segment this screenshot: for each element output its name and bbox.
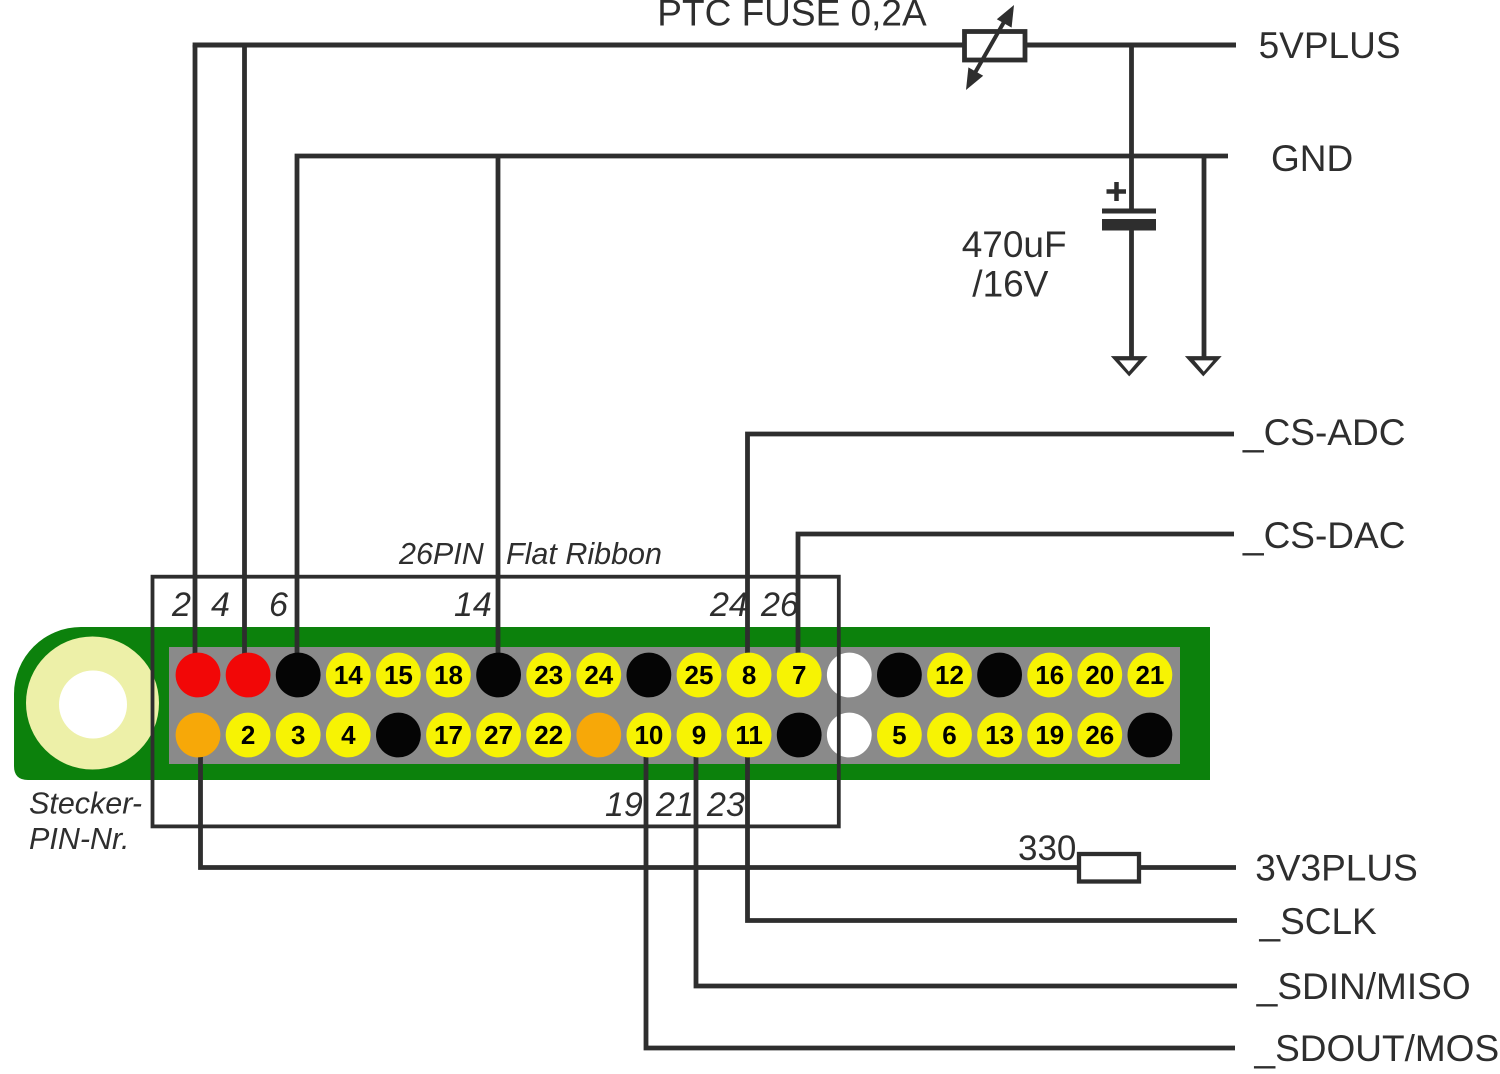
svg-text:20: 20 (1085, 660, 1114, 690)
net label GND (1271, 138, 1353, 179)
svg-text:330: 330 (1018, 829, 1076, 868)
connector pin 6 (black) (276, 653, 321, 698)
svg-text:4: 4 (341, 720, 356, 750)
svg-text:17: 17 (434, 720, 463, 750)
wire pin21 to _SDIN/MISO (696, 735, 1237, 986)
connector pin 11 (yel GPIO17) (426, 713, 471, 758)
net label 5VPLUS (1259, 25, 1401, 66)
svg-text:3V3PLUS: 3V3PLUS (1255, 848, 1418, 889)
mounting hole (59, 671, 127, 739)
connector body (169, 647, 1180, 764)
connector pin 5 (yel GPIO3) (276, 713, 321, 758)
svg-text:24: 24 (709, 586, 748, 624)
connector pin 12 (yel GPIO18) (426, 653, 471, 698)
connector pin 31 (yel GPIO6) (927, 713, 972, 758)
svg-text:11: 11 (735, 720, 763, 750)
pin number 19 (605, 786, 643, 824)
connector pin 33 (yel GPIO13) (977, 713, 1022, 758)
resistor R1 330 (1079, 854, 1139, 882)
svg-text:5: 5 (892, 720, 906, 750)
svg-text:4: 4 (211, 586, 230, 624)
svg-text:24: 24 (584, 660, 613, 690)
svg-text:21: 21 (655, 786, 694, 824)
pin number 21 (655, 786, 694, 824)
label 26PIN (398, 537, 485, 571)
svg-text:Stecker-: Stecker- (29, 787, 142, 821)
wire 5VPLUS to capacitor C1 (1129, 45, 1134, 212)
capacitor C1 (1102, 182, 1156, 231)
svg-text:14: 14 (454, 586, 492, 624)
svg-text:15: 15 (384, 660, 413, 690)
pin number 4 (211, 586, 230, 624)
svg-text:_SCLK: _SCLK (1259, 901, 1378, 942)
PCB board (14, 627, 1210, 780)
svg-text:PIN-Nr.: PIN-Nr. (29, 822, 130, 856)
connector pin 15 (yel GPIO22) (526, 713, 571, 758)
connector pin 27 (white) (827, 713, 872, 758)
pin number 24 (709, 586, 748, 624)
svg-text:2: 2 (171, 586, 191, 624)
svg-text:PTC FUSE 0,2A: PTC FUSE 0,2A (657, 0, 927, 34)
net label _SDIN/MISO (1256, 966, 1471, 1007)
connector pin 21 (yel GPIO9) (677, 713, 722, 758)
wire pin26 to _CS-DAC (798, 534, 1234, 675)
net label 3V3PLUS (1255, 848, 1418, 889)
svg-text:16: 16 (1035, 660, 1064, 690)
connector pin 30 (black) (877, 653, 922, 698)
connector pin 18 (yel GPIO24) (576, 653, 621, 698)
connector pin 35 (yel GPIO19) (1027, 713, 1072, 758)
pin number 14 (454, 586, 492, 624)
svg-text:23: 23 (534, 660, 563, 690)
svg-text:_CS-DAC: _CS-DAC (1242, 515, 1405, 556)
connector pin 10 (yel GPIO15) (376, 653, 421, 698)
net label _SDOUT/MOSI (1254, 1028, 1500, 1069)
svg-text:6: 6 (269, 586, 288, 624)
pin number 23 (706, 786, 745, 824)
resistor value 330 (1018, 829, 1076, 868)
wire pin14 to GND (496, 156, 501, 675)
svg-text:2: 2 (241, 720, 255, 750)
net label _CS-ADC (1242, 412, 1405, 453)
svg-text:26: 26 (1085, 720, 1114, 750)
svg-text:_SDIN/MISO: _SDIN/MISO (1256, 966, 1471, 1007)
connector pin 3 (yel GPIO2) (226, 713, 271, 758)
label Flat Ribbon (506, 537, 662, 571)
svg-text:6: 6 (942, 720, 956, 750)
ground symbol (capacitor) (1111, 356, 1148, 376)
connector pin 22 (yel GPIO25) (677, 653, 722, 698)
svg-text:22: 22 (534, 720, 563, 750)
svg-text:27: 27 (484, 720, 513, 750)
mounting hole pad (26, 637, 159, 770)
connector pin 24 (yel GPIO8) (727, 653, 772, 698)
connector pin 17 (org) (576, 713, 621, 758)
connector pin 23 (yel GPIO11) (727, 713, 772, 758)
ground symbol (GND net) (1185, 356, 1222, 376)
connector pin 25 (black) (777, 713, 822, 758)
wire capacitor C1 to ground (1129, 228, 1134, 358)
connector pin 34 (black) (977, 653, 1022, 698)
connector pin 26 (yel GPIO7) (777, 653, 822, 698)
connector pin 13 (yel GPIO27) (476, 713, 521, 758)
connector pin 40 (yel GPIO21) (1128, 653, 1173, 698)
svg-text:/16V: /16V (972, 264, 1048, 305)
svg-text:7: 7 (792, 660, 806, 690)
svg-text:25: 25 (685, 660, 714, 690)
svg-text:5VPLUS: 5VPLUS (1259, 25, 1401, 66)
svg-text:18: 18 (434, 660, 463, 690)
svg-text:_SDOUT/MOSI: _SDOUT/MOSI (1254, 1028, 1500, 1069)
connector pin 14 (black) (476, 653, 521, 698)
wire pin2 to 5VPLUS (193, 45, 198, 675)
svg-text:19: 19 (605, 786, 643, 824)
wire GND to ground (1202, 156, 1207, 358)
connector pin 28 (white) (827, 653, 872, 698)
wire pin4 to 5VPLUS (242, 45, 247, 675)
pin number 2 (171, 586, 191, 624)
svg-text:470uF: 470uF (962, 224, 1067, 265)
svg-text:10: 10 (634, 720, 663, 750)
connector pin 7 (yel GPIO4) (326, 713, 371, 758)
connector pin 36 (yel GPIO16) (1027, 653, 1072, 698)
connector pin 4 (red) (226, 653, 271, 698)
connector pin 32 (yel GPIO12) (927, 653, 972, 698)
connector pin 9 (black) (376, 713, 421, 758)
svg-text:_CS-ADC: _CS-ADC (1242, 412, 1405, 453)
connector pin 20 (black) (627, 653, 672, 698)
wire pin1 to resistor R1 and 3V3PLUS (201, 735, 1237, 868)
svg-text:23: 23 (706, 786, 745, 824)
wire pin6 to GND horizontal (297, 156, 1228, 675)
connector pin 39 (black) (1128, 713, 1173, 758)
connector pin 37 (yel GPIO26) (1077, 713, 1122, 758)
wire pin24 to _CS-ADC (748, 434, 1235, 675)
svg-text:14: 14 (334, 660, 363, 690)
svg-text:8: 8 (742, 660, 756, 690)
svg-text:12: 12 (935, 660, 964, 690)
svg-text:26: 26 (760, 586, 799, 624)
wire pin23 to _SCLK (748, 735, 1238, 921)
fuse label PTC FUSE 0,2A (657, 0, 927, 34)
capacitor value 470uF /16V (962, 224, 1067, 305)
connector pin 1 (org) (176, 713, 221, 758)
pin numbering box (153, 577, 839, 827)
svg-text:3: 3 (291, 720, 305, 750)
connector pin 19 (yel GPIO10) (627, 713, 672, 758)
connector pin 29 (yel GPIO5) (877, 713, 922, 758)
net label _SCLK (1259, 901, 1378, 942)
pin number 6 (269, 586, 288, 624)
net label _CS-DAC (1242, 515, 1405, 556)
pin number 26 (760, 586, 799, 624)
connector pin 16 (yel GPIO23) (526, 653, 571, 698)
svg-text:GND: GND (1271, 138, 1353, 179)
connector pin 2 (red) (176, 653, 221, 698)
svg-text:Flat Ribbon: Flat Ribbon (506, 537, 662, 571)
svg-text:26PIN: 26PIN (398, 537, 485, 571)
svg-text:19: 19 (1035, 720, 1064, 750)
svg-text:9: 9 (692, 720, 706, 750)
svg-text:21: 21 (1135, 660, 1164, 690)
wire pin19 to _SDOUT/MOSI (646, 735, 1235, 1048)
svg-text:13: 13 (985, 720, 1014, 750)
connector pin 8 (yel GPIO14) (326, 653, 371, 698)
wire 5VPLUS horizontal (193, 43, 1236, 48)
fuse F1 (965, 5, 1026, 90)
connector pin 38 (yel GPIO20) (1077, 653, 1122, 698)
label Stecker-PIN-Nr. (29, 787, 142, 857)
